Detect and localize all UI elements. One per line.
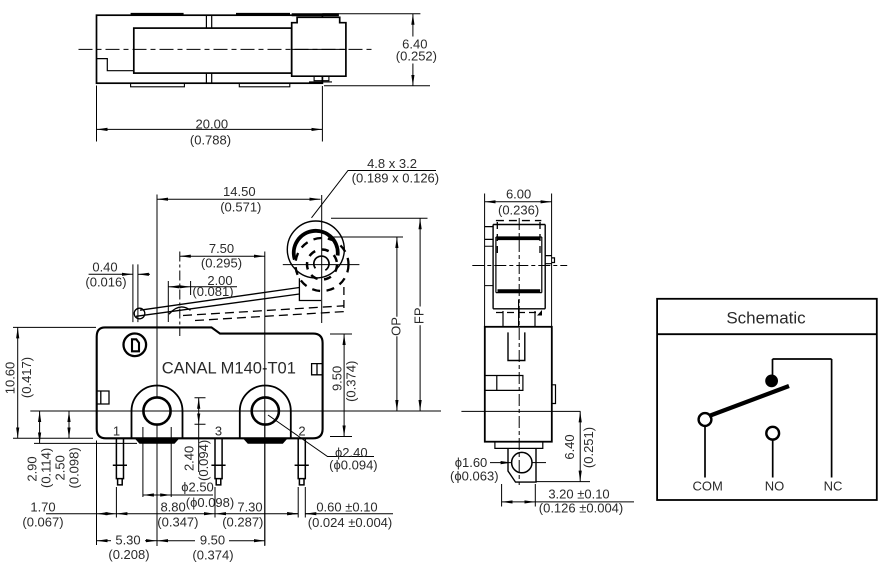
bottom dimension row 1 [46, 441, 393, 546]
svg-text:9.50: 9.50 [200, 532, 225, 547]
svg-text:(0.417): (0.417) [19, 357, 34, 398]
terminal pin 1 [113, 438, 127, 485]
svg-text:2.40: 2.40 [182, 446, 197, 471]
svg-text:(0.208): (0.208) [108, 547, 149, 562]
svg-text:ϕ2.50: ϕ2.50 [181, 480, 214, 495]
top view seam lines [206, 15, 211, 83]
svg-text:CANAL M140-T01: CANAL M140-T01 [162, 360, 296, 378]
wire NO [772, 440, 774, 478]
svg-text:(0.098): (0.098) [66, 447, 81, 488]
svg-text:5.30: 5.30 [115, 532, 140, 547]
wire COM [704, 426, 706, 478]
side right tab [545, 256, 554, 264]
side body outline [485, 327, 552, 442]
svg-text:(0.067): (0.067) [22, 515, 63, 530]
dimension 7.50 [180, 252, 265, 546]
svg-text:7.50: 7.50 [209, 241, 234, 256]
LEVER AND ROLLER [134, 278, 344, 320]
bottom dimension row 2 [97, 425, 265, 546]
datum line through holes [30, 410, 441, 412]
node NO [766, 427, 779, 440]
roller cross lines [283, 208, 360, 323]
dimension phi2.50 [143, 427, 213, 497]
svg-text:NO: NO [765, 479, 785, 494]
svg-text:(0.788): (0.788) [190, 133, 231, 148]
svg-text:(0.126 ±0.004): (0.126 ±0.004) [539, 500, 623, 515]
front right notch [312, 364, 323, 375]
dimension 2.00 [168, 281, 237, 322]
roller bracket solid [299, 278, 321, 300]
mounting hole left [143, 397, 170, 424]
top view roller block [292, 17, 346, 76]
roller axle circle [314, 256, 329, 270]
svg-text:(0.287): (0.287) [222, 515, 263, 530]
svg-text:10.60: 10.60 [3, 362, 18, 395]
front left notch [97, 391, 109, 404]
FP reference line [331, 217, 428, 219]
node COM [699, 413, 712, 426]
side datum line [461, 410, 580, 412]
lever pressed dashed bottom [195, 312, 344, 321]
svg-text:9.50: 9.50 [329, 366, 344, 391]
side dashed roller free top [496, 220, 541, 222]
top view thick bar left [131, 13, 184, 16]
svg-text:4.8 x 3.2: 4.8 x 3.2 [367, 156, 417, 171]
svg-text:20.00: 20.00 [196, 116, 229, 131]
contact dot NC [765, 375, 778, 388]
mounting hole right [252, 397, 279, 424]
OP reference line [332, 236, 403, 238]
dimension 6.00 [485, 194, 552, 327]
side left notch [485, 376, 523, 391]
dimension 2.40 vertical [195, 398, 206, 472]
svg-text:(ϕ0.063): (ϕ0.063) [450, 469, 498, 484]
dimension OP [396, 237, 398, 411]
wire NC [831, 359, 833, 478]
roller free thick arc [294, 231, 338, 260]
svg-text:2.90: 2.90 [24, 456, 39, 481]
lever pressed dashed top [183, 306, 344, 316]
svg-text:FP: FP [412, 307, 427, 324]
top view body outline [97, 15, 323, 83]
svg-text:2.50: 2.50 [52, 455, 67, 480]
lever pivot bump [169, 307, 191, 314]
roller bracket dashed [343, 287, 345, 312]
certification mark [124, 334, 147, 357]
svg-text:1: 1 [113, 424, 120, 439]
svg-text:0.40: 0.40 [92, 259, 117, 274]
dimension 3.20 [502, 484, 634, 507]
side terminal [508, 448, 536, 482]
dimension 2.90 [34, 411, 137, 443]
side bracket below plate [503, 300, 535, 327]
svg-text:(0.571): (0.571) [220, 200, 261, 215]
dimension 2.50 [68, 411, 70, 438]
svg-text:2: 2 [298, 424, 305, 439]
svg-text:(0.114): (0.114) [38, 448, 53, 488]
svg-text:8.80: 8.80 [160, 499, 185, 514]
leader phi1.60 [490, 462, 546, 464]
svg-text:NC: NC [824, 479, 843, 494]
svg-text:(0.251): (0.251) [581, 427, 596, 468]
svg-text:14.50: 14.50 [223, 184, 256, 199]
side terminal hole [512, 452, 532, 472]
roller pressed dashed circle [296, 238, 349, 291]
lever end curl [134, 308, 145, 319]
top view centerline [79, 48, 375, 50]
svg-text:(0.374): (0.374) [344, 361, 359, 402]
top view bottom foot left [131, 83, 185, 87]
top view thick bar middle [236, 13, 290, 16]
terminal pin 3 [211, 438, 225, 485]
dimension 20.00 [97, 86, 323, 142]
leader phi2.40 [268, 415, 374, 457]
leader 4.8 x 3.2 [312, 171, 437, 218]
front body outline [97, 327, 323, 438]
wire top [773, 359, 832, 375]
side left tab [485, 227, 493, 240]
dimension 6.40 top view [322, 14, 430, 86]
side right bump [552, 385, 556, 404]
side dashed vertical centerline [518, 218, 520, 485]
side top inner rect [508, 332, 525, 360]
svg-text:1.70: 1.70 [30, 499, 55, 514]
dimension 9.50 right side [330, 334, 352, 437]
svg-text:(0.347): (0.347) [157, 515, 198, 530]
dimension FP [419, 218, 421, 411]
top view left step [97, 59, 134, 71]
roller pressed inner dashed circle [307, 250, 337, 280]
svg-text:COM: COM [693, 479, 723, 494]
svg-text:6.40: 6.40 [562, 434, 577, 459]
lever bottom line [136, 294, 299, 316]
svg-text:Schematic: Schematic [726, 309, 806, 328]
side dashed horizontal centerline [472, 265, 567, 267]
side lever plate [493, 225, 545, 309]
side roller rect [496, 237, 542, 293]
schematic title divider [657, 333, 877, 335]
svg-text:(0.081): (0.081) [192, 284, 233, 299]
side ext line ticks [485, 246, 494, 285]
top view centerline solid through block [292, 48, 346, 50]
svg-text:(0.374): (0.374) [192, 547, 233, 562]
top view thick bar right [292, 13, 339, 16]
lever top line [140, 288, 299, 311]
boss left [132, 386, 183, 439]
svg-text:(0.295): (0.295) [201, 256, 242, 271]
svg-text:7.30: 7.30 [237, 499, 262, 514]
top view inner housing rect [134, 28, 292, 73]
svg-text:6.00: 6.00 [506, 187, 531, 202]
svg-text:(ϕ0.094): (ϕ0.094) [329, 458, 377, 473]
svg-text:(0.094): (0.094) [196, 440, 211, 481]
svg-text:(ϕ0.098): (ϕ0.098) [186, 495, 234, 510]
schematic frame [657, 299, 877, 500]
svg-text:3: 3 [215, 424, 222, 439]
SIDE VIEW [485, 225, 556, 483]
svg-text:OP: OP [389, 317, 404, 336]
svg-text:0.60 ±0.10: 0.60 ±0.10 [316, 499, 377, 514]
dimension 10.60 [13, 327, 96, 438]
side dashed roller free sides [497, 222, 540, 258]
svg-text:(0.236): (0.236) [498, 202, 539, 217]
dimension 6.40 side [536, 411, 590, 481]
side bottom step [495, 442, 543, 449]
top view bottom foot right [239, 83, 289, 87]
roller free circle [287, 221, 344, 278]
svg-text:(0.252): (0.252) [396, 49, 437, 64]
svg-text:(0.189 x 0.126): (0.189 x 0.126) [352, 171, 439, 186]
boss right [240, 386, 291, 439]
dimension 0.40 [89, 264, 150, 322]
terminal pin 2 [295, 438, 309, 485]
svg-text:(0.024 ±0.004): (0.024 ±0.004) [308, 515, 392, 530]
svg-text:(0.016): (0.016) [85, 274, 126, 289]
top view roller tab below [309, 76, 332, 82]
FRONT VIEW [97, 327, 323, 438]
switch lever arm [709, 386, 789, 416]
dimension 14.50 [157, 195, 322, 399]
